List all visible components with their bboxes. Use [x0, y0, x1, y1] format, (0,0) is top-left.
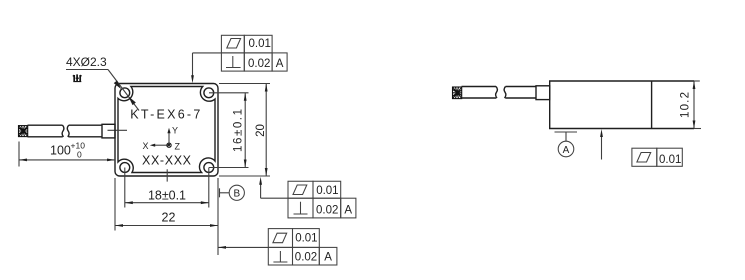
leader arrow lower [128, 96, 136, 105]
centerline tick bottom [166, 169, 168, 181]
side cable sleeve [536, 86, 550, 100]
dim 22 line [115, 225, 218, 227]
hole top-right [204, 88, 214, 98]
dim 20 extension lines [219, 83, 270, 85]
svg-text:100: 100 [50, 144, 71, 158]
svg-text:A: A [324, 252, 332, 264]
svg-text:22: 22 [162, 211, 176, 225]
svg-text:0.01: 0.01 [295, 233, 317, 245]
leader shoulder [66, 69, 108, 71]
dim 18 line [125, 202, 209, 204]
svg-text:0.01: 0.01 [249, 38, 271, 50]
FCF right view frame [632, 148, 682, 166]
perpendicularity symbol [226, 56, 241, 68]
dim 18 arrows [125, 201, 133, 204]
svg-text:0.01: 0.01 [316, 185, 338, 197]
dim 100 arrows [19, 159, 27, 162]
dim 22 extension lines [114, 178, 116, 231]
dim 20 arrows [265, 84, 268, 92]
cable break symbol [62, 125, 69, 137]
dim 16 arrows [244, 93, 247, 101]
dim 10.2 line (right edge) [693, 81, 695, 129]
svg-text:10.2: 10.2 [680, 92, 692, 118]
side body outline [550, 81, 694, 129]
FCF mid (near B): leader [261, 197, 288, 199]
flatness symbol [227, 39, 241, 49]
dim 10.2 extension overhangs [694, 80, 700, 82]
dim 18 extension lines [124, 168, 126, 208]
hole bottom-right [204, 163, 214, 173]
datum A circle [558, 141, 574, 157]
svg-text:A: A [344, 204, 352, 216]
svg-text:B: B [233, 189, 240, 200]
dim 20 line [265, 84, 267, 177]
dim 16 extension lines [209, 92, 249, 94]
dim 22 arrows [115, 224, 123, 227]
hole top-left [120, 88, 130, 98]
centerline cable entry [108, 129, 128, 131]
FCF top: leader [193, 52, 222, 54]
cable sleeve [102, 124, 115, 138]
axes symbol [143, 126, 181, 152]
leader line through hole [108, 70, 139, 111]
side cable frayed end [453, 87, 462, 99]
through-hole note [73, 74, 82, 81]
leader arrow to bottom face [601, 133, 603, 160]
dim 16 line [244, 93, 246, 168]
svg-text:18±0.1: 18±0.1 [148, 189, 186, 203]
cable body [28, 125, 103, 137]
svg-text:A: A [563, 145, 570, 156]
datum B tick [219, 188, 221, 197]
datum B circle [229, 185, 244, 200]
leader arrow upper [114, 81, 122, 90]
cable frayed end [19, 126, 28, 137]
side cable body [462, 87, 537, 99]
svg-text:0.02: 0.02 [248, 58, 270, 70]
svg-text:Z: Z [175, 142, 181, 152]
side body internal edge [651, 81, 653, 129]
svg-text:0.02: 0.02 [295, 252, 317, 264]
svg-text:X: X [143, 141, 149, 151]
svg-text:XX-XXX: XX-XXX [142, 154, 192, 168]
FCF bottom frame [268, 229, 337, 265]
svg-text:0: 0 [77, 150, 82, 160]
dim 100 line [19, 159, 115, 161]
dim 100 extension line left [18, 142, 20, 167]
body inner contour with scallops around holes [118, 87, 215, 173]
dim 10.2 arrows [693, 81, 696, 89]
FCF top frame [221, 35, 287, 71]
svg-text:Y: Y [172, 126, 178, 136]
svg-text:0.02: 0.02 [316, 204, 338, 216]
svg-text:A: A [276, 58, 284, 70]
datum A bar [555, 131, 578, 133]
body outer outline [115, 84, 218, 177]
hole bottom-left [120, 163, 130, 173]
side cable break [496, 87, 506, 99]
svg-text:20: 20 [255, 124, 267, 137]
svg-text:0.01: 0.01 [659, 154, 681, 166]
svg-text:4XØ2.3: 4XØ2.3 [66, 55, 107, 69]
FCF bottom: leader [218, 246, 268, 248]
FCF mid frame [288, 181, 356, 218]
